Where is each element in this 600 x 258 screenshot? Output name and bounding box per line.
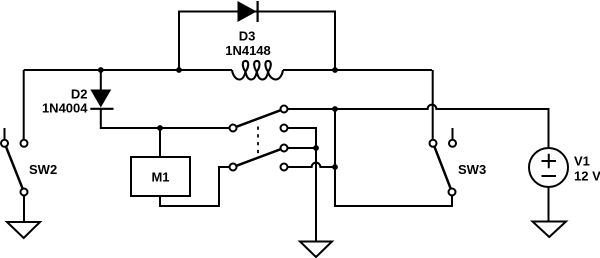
wire left drop to SW2 [23,70,25,140]
node dot (316,148) [313,145,319,151]
wire to ground2 [315,148,317,242]
wire M1 top [159,128,161,157]
svg-text:1N4148: 1N4148 [225,43,271,58]
mechanical link dashed [257,127,259,157]
contact terminal T4 [281,164,288,171]
node dot (160,128) [157,125,163,131]
ground (center) [300,242,332,258]
node dot (335,109) [332,106,338,112]
motor M1 box [131,157,190,196]
node dot (100.8,70) [98,67,104,73]
node dot (335,70) [332,67,338,73]
contact terminal T1 [281,106,288,113]
wire main horizontal left y=70 [24,69,232,71]
wire SW2 bottom stub [23,196,25,223]
contact terminal T2 [281,125,288,132]
diode D2 [90,90,113,109]
svg-text:12 V: 12 V [574,168,600,183]
contact terminal T3 [281,145,288,152]
wire right drop to SW3 pole [432,70,434,140]
blade pole1 [236,110,280,127]
wire row2 contact [288,128,317,148]
wire SW2 floating stub [4,128,6,140]
ground (SW2) [7,222,40,238]
wire main horizontal right y=70 [283,69,432,71]
node dot (335,167) [332,164,338,170]
wire M1 bottom to pole2 [160,167,230,206]
svg-text:D3: D3 [239,29,256,44]
plus sign [542,154,557,169]
switch SW3 [430,140,457,196]
voltage source V1 [529,148,568,187]
wire D2 anode [100,70,102,90]
svg-text:1N4004: 1N4004 [42,101,88,116]
wire node B vertical to SW3 bottom [335,109,452,206]
svg-text:D2: D2 [71,87,88,102]
ground (V1) [533,222,567,238]
relay switch poles (DPDT section) [230,106,288,171]
wire row4 with hop [288,163,336,167]
svg-text:SW2: SW2 [29,162,57,177]
blade pole2 [236,149,280,166]
pole terminal P2 [230,164,237,171]
wire V1 bottom stub [548,187,550,222]
wire SW3 floating stub [452,128,454,140]
diode D3 [238,1,258,22]
wire row1 y=109 with hop to V1 [288,105,549,148]
wire row3 contact [288,147,317,149]
junction node dots [98,67,338,170]
svg-text:V1: V1 [574,154,590,169]
svg-text:M1: M1 [151,169,169,184]
wire D3 loop [179,12,335,71]
pole terminal P1 [230,125,237,132]
switch SW2 [1,140,28,196]
svg-text:SW3: SW3 [458,162,486,177]
wire D2 cathode to pole1 [101,109,230,128]
minus sign [542,175,557,177]
inductor L1 [232,61,283,80]
node dot (179,70) [176,67,182,73]
